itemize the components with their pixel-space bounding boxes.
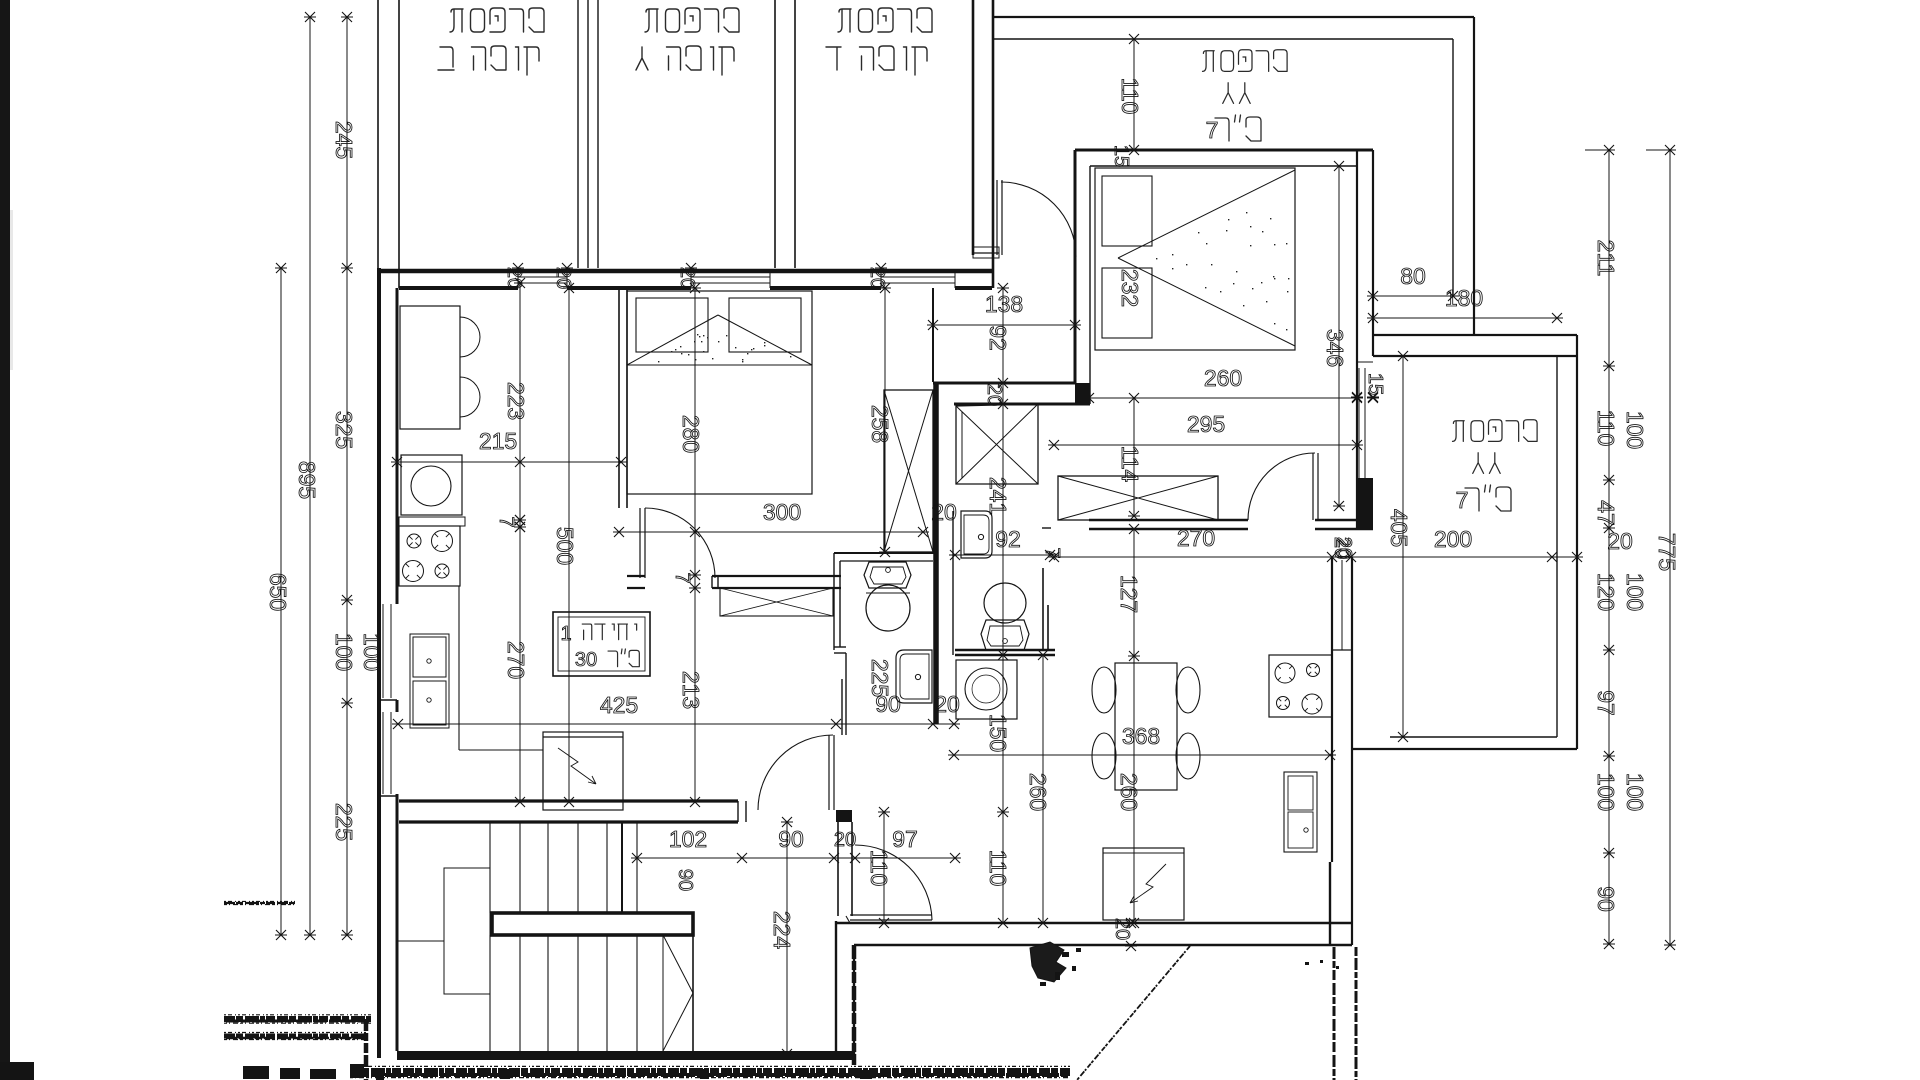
svg-text:346: 346 [1322,329,1348,367]
scan edge strip left [0,0,10,1080]
bedroom2 top wall [1075,149,1373,152]
counter right [1332,649,1352,651]
door landing leaf [828,735,830,810]
bathroom1 left wall [833,553,835,650]
door bedroom2 leaf [1312,453,1314,520]
bedroom1 door leaf [639,508,641,578]
living room left wall [835,921,837,1052]
dim 368 [954,754,1330,756]
dim 295 bedroom2 [1054,444,1357,446]
svg-text:895: 895 [294,461,320,499]
svg-text:425: 425 [600,692,638,718]
wall kitchen/stair band [399,799,738,802]
svg-text:114: 114 [1117,446,1143,483]
scan blob center [1030,942,1066,982]
svg-text:110: 110 [985,850,1011,887]
wall below living speckled [852,945,857,1070]
roof balcony 2 top wall [1373,334,1577,336]
svg-text:97: 97 [1593,690,1619,716]
dim 110 pair [883,812,885,923]
bed 2 blanket fold [1118,170,1295,258]
entry threshold [992,255,994,288]
svg-text:211: 211 [1593,240,1619,277]
svg-text:280: 280 [678,415,704,453]
door bedroom2 arc [1248,453,1315,520]
svg-text:127: 127 [1116,575,1142,613]
svg-text:7: 7 [1456,487,1469,513]
svg-text:213: 213 [678,671,704,709]
dim line 895 left [309,17,311,935]
svg-text:405: 405 [1386,509,1412,547]
svg-text:100: 100 [1622,773,1648,811]
corridor wall right [841,679,843,735]
label balcony D: koma D [912,47,927,75]
dim 110 roof [1133,39,1135,150]
svg-text:20: 20 [1607,528,1633,554]
svg-text:110: 110 [1593,410,1619,447]
bed 1 outline [627,291,812,494]
svg-text:92: 92 [985,325,1011,351]
bed 2 pillow bottom [1102,268,1152,338]
bedroom2 left wall [1074,150,1077,383]
right dim chain 211/110/47/120/97/100/90 [1608,150,1610,944]
svg-text:100: 100 [1622,573,1648,611]
svg-text:90: 90 [674,869,696,891]
stair mid landing [492,913,693,935]
svg-text:241: 241 [985,477,1011,515]
roof balcony 2 bottom [1390,736,1557,738]
wardrobe bedroom2 [1058,476,1218,520]
label roof balcony 1: marpeset gag 7 sqm [1274,50,1288,72]
svg-text:47: 47 [1593,500,1619,526]
kitchen window right wall [1341,560,1343,650]
svg-text:270: 270 [1177,525,1215,551]
svg-text:224: 224 [769,911,795,950]
dining table living [1115,663,1177,790]
svg-text:300: 300 [763,499,801,525]
balcony D doorway sill [973,252,999,254]
label balcony D: marpeset [917,8,932,32]
dim 500 unit [568,288,570,802]
diagonal scan noise [1077,946,1190,1080]
label balcony B: koma B [524,47,539,75]
bedroom1 door arc [645,508,715,578]
dim 180 [1373,317,1557,319]
svg-text:260: 260 [1025,773,1051,811]
svg-text:232: 232 [1117,269,1143,307]
wall post landing [836,810,852,822]
dim chain 92/20/241/150/110 vertical [1002,288,1004,923]
svg-text:270: 270 [503,641,529,679]
entry door arc [1001,182,1076,257]
svg-text:20: 20 [676,267,698,289]
dim 300 bedroom1 [619,531,923,533]
svg-text:225: 225 [331,803,357,841]
main top wall outer [378,269,993,274]
living room door arc [855,845,932,920]
dining table kitchen [400,306,460,429]
garden wall left speckled 1 [224,1016,371,1022]
svg-text:110: 110 [1117,78,1143,115]
svg-text:245: 245 [331,121,357,159]
svg-text:1: 1 [560,623,571,645]
dim chain 102/90/20/97 [637,857,955,859]
label roof balcony 2: marpeset gag 7 sqm [1524,420,1538,442]
main top wall inner with windows [399,286,518,290]
svg-text:110: 110 [866,850,892,887]
wall between balcony B and C [577,0,579,268]
wardrobe bedroom1 [884,390,933,552]
svg-text:100: 100 [359,633,385,671]
bed 1 blanket fold [627,315,718,365]
svg-text:7: 7 [1041,547,1063,558]
dim 127 [1133,529,1135,656]
svg-text:20: 20 [503,267,525,289]
wall bedroom1/entry [932,288,934,382]
dim 260 bedroom2 [1089,397,1357,399]
svg-text:325: 325 [331,411,357,449]
svg-text:97: 97 [892,826,918,852]
svg-text:15: 15 [1364,373,1386,395]
svg-text:92: 92 [995,526,1021,552]
bathroom1/2 separation wall [933,383,939,724]
garden wall bottom speckled [350,1068,1070,1076]
svg-text:7: 7 [495,516,517,527]
svg-text:120: 120 [1593,573,1619,611]
svg-text:258: 258 [867,405,893,443]
kitchen left wall windows [396,288,399,604]
stove kitchen right [1269,655,1332,717]
dim line 650 left [280,268,282,935]
garden wall left speckled 2 [224,1034,368,1039]
bedroom1 left wall [618,288,620,508]
bedroom2 bottom wall and door [1089,519,1248,521]
dim 80 [1373,295,1453,297]
toilet bathroom1 [864,562,911,588]
svg-text:223: 223 [503,382,529,420]
bed 2 pillow top [1102,176,1152,246]
entry door leaf [996,180,998,255]
dim 260 left [1042,655,1044,923]
svg-text:500: 500 [552,527,578,565]
balcony B left wall [377,0,379,268]
wall band above shower [933,382,1075,385]
balcony D right wall [972,0,975,255]
kitchen sink cabinets [410,634,449,728]
scan blob bottom-left corner [0,1062,34,1080]
svg-text:260: 260 [1204,365,1242,391]
svg-text:295: 295 [1187,411,1225,437]
bathroom2 bottom wall [955,649,1055,652]
svg-text:7: 7 [671,572,693,583]
chairs living [1092,667,1116,713]
svg-text:200: 200 [1434,526,1472,552]
roof balcony 1 boundary [993,16,1474,18]
svg-text:100: 100 [331,633,357,671]
right dim 775 overall [1669,150,1671,945]
bedroom2 right wall with window [1356,150,1358,529]
garden scribbles bottom [243,1066,269,1079]
svg-text:215: 215 [479,428,517,454]
toilet bathroom2 [984,583,1026,623]
svg-text:20: 20 [1330,537,1352,559]
closet niche with X [720,588,833,616]
stove kitchen left [399,526,460,586]
dim 223/270 kitchen [519,283,521,802]
washing machine kitchen [401,455,462,515]
dim 92 bathroom2 [955,554,1050,556]
kitchen shelf [399,517,465,526]
dim chain left 245/325/100/225 [346,17,348,935]
kitchen counter edge [458,586,460,750]
stair cut mark [663,935,693,993]
stray scan dash left [224,902,295,904]
svg-text:20: 20 [931,499,957,525]
svg-text:138: 138 [985,291,1023,317]
door landing arc [758,735,833,810]
dim 138 entry [933,324,1075,326]
bed 2 outline [1095,168,1295,350]
stair treads lower flight [489,935,491,1051]
landing box with arrow [543,732,623,810]
bathroom2 right wall [1042,568,1044,650]
living room door leaf [850,914,932,916]
svg-text:20: 20 [866,267,888,289]
svg-text:15: 15 [1110,145,1132,167]
wall between balcony C and D [774,0,776,268]
stair treads upper flight [489,822,491,913]
upper cabinet right [1284,772,1317,852]
shower stall [956,404,1038,484]
dim 280 bedroom1 [694,288,696,575]
unit label box [553,612,650,676]
dim 270 living [1048,552,1060,562]
label balcony B: marpeset [529,8,544,32]
dim 425 unit [398,723,836,725]
svg-text:20: 20 [983,384,1005,406]
bathroom1 top wall [834,552,938,554]
unit label text: yechida 1 [635,624,637,630]
svg-text:90: 90 [778,826,804,852]
chairs kitchen [460,317,480,357]
sink bathroom2 [961,511,992,558]
dim 224 stairs [786,822,788,1054]
living room bottom wall [836,922,1352,924]
bedroom1 bottom wall [627,575,645,577]
stairwell bottom wall [397,1051,855,1060]
dim 346 bedroom2 [1338,166,1340,506]
svg-text:20: 20 [934,691,960,717]
svg-text:650: 650 [265,573,291,611]
unit label text: 30 sqm [629,650,639,666]
living room right wall [1329,862,1331,945]
svg-text:225: 225 [867,659,893,697]
svg-text:100: 100 [1593,773,1619,811]
stairwell inner wall [396,822,399,1051]
svg-text:90: 90 [1593,886,1619,912]
dim 200 balcony2 [1054,556,1577,558]
svg-text:775: 775 [1654,533,1680,571]
svg-text:368: 368 [1122,723,1160,749]
svg-text:80: 80 [1400,263,1426,289]
dim 215 kitchen [397,461,621,463]
dim 260 table [1133,656,1135,923]
svg-text:30: 30 [575,649,597,671]
svg-text:20: 20 [834,829,856,851]
heater closet [1103,848,1184,920]
dim 258 wardrobe [884,288,886,552]
speckled verticals below living right [1333,947,1336,1080]
svg-text:150: 150 [985,714,1011,752]
svg-text:7: 7 [1206,117,1219,143]
dim 405 balcony2 [1402,356,1404,737]
stair void rect [444,868,490,994]
bed 1 pillows [636,298,708,352]
roof balcony 2 right wall [1556,356,1558,737]
svg-text:100: 100 [1622,411,1648,449]
stair right wall [692,913,694,1051]
sink bathroom1 [896,650,932,703]
dim 114 [1133,398,1135,516]
outer left wall [377,268,381,1058]
svg-text:102: 102 [669,826,707,852]
garden wall left vertical speckled [364,1019,369,1080]
washing machine [956,660,1017,719]
label balcony C: koma G [719,47,734,75]
label balcony C: marpeset [724,8,739,32]
svg-text:260: 260 [1116,773,1142,811]
svg-text:180: 180 [1445,285,1483,311]
